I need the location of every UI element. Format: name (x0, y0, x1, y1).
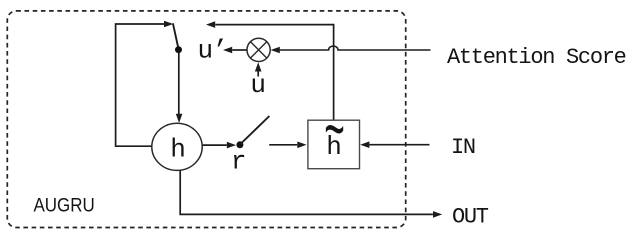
OUT wire from h bottom (180, 170, 433, 214)
IN wire (pointing left into box) (370, 144, 430, 146)
svg-text:u: u (250, 70, 266, 100)
arrowhead into box (pointing right) (297, 142, 306, 149)
wire: from h-tilde box top, up and left to u' switch (215, 25, 333, 120)
switch arm u' (update gate) (173, 23, 179, 48)
attention score wire with hop over vertical wire (280, 46, 431, 50)
arrowhead into multiplier (pointing left) (271, 47, 280, 54)
junction dot at u' switch pivot (175, 46, 182, 53)
wire: recurrent loop from h left up and across top (116, 24, 164, 146)
wire: switch pivot down to h (178, 53, 180, 115)
svg-text:AUGRU: AUGRU (34, 193, 95, 215)
h state circle (152, 123, 202, 170)
arrowhead into h top (pointing down) (176, 114, 183, 123)
arrowhead at r switch (pointing right) (227, 142, 236, 149)
arrowhead into u' switch (pointing right) (164, 21, 173, 28)
wire: h output to r switch (202, 144, 226, 146)
multiplier circle X (247, 38, 270, 61)
junction dot at r switch pivot (236, 141, 243, 148)
u input arrow (pointing up into multiplier) (257, 70, 259, 77)
svg-text:r: r (231, 147, 247, 177)
switch arm r (reset gate) (241, 116, 270, 144)
svg-text:Attention Score: Attention Score (447, 45, 626, 70)
wire into h-tilde box (269, 144, 297, 146)
u' output arrow from multiplier (pointing left) (232, 49, 247, 51)
arrowhead toward switch (pointing left) (206, 21, 215, 28)
svg-text:IN: IN (451, 135, 475, 160)
svg-text:u: u (198, 36, 214, 66)
arrowhead OUT (pointing right) (433, 211, 442, 218)
AUGRU cell dashed boundary box (7, 11, 405, 228)
h-tilde candidate box (308, 120, 360, 169)
svg-text:~: ~ (324, 97, 345, 174)
svg-text:OUT: OUT (452, 205, 489, 230)
svg-text:h: h (170, 134, 186, 164)
svg-text:’: ’ (213, 36, 229, 66)
